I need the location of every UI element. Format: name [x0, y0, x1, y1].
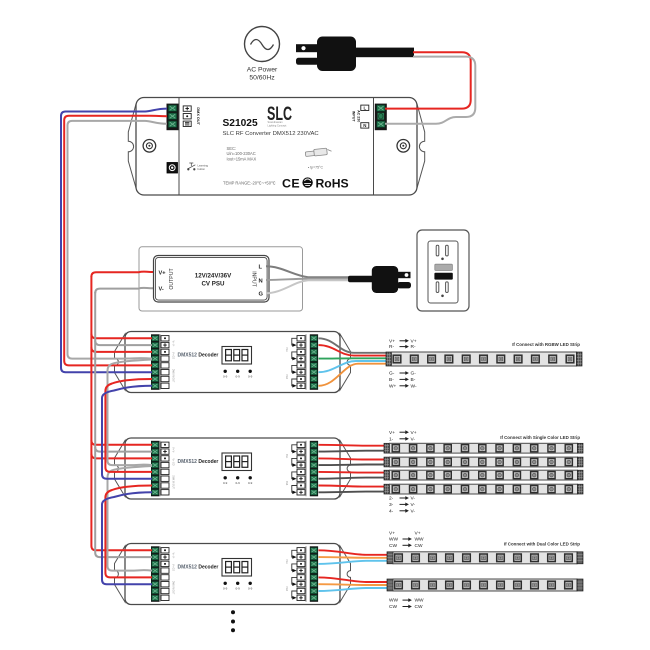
single color LED strip S4	[384, 484, 583, 494]
svg-text:Iout=15mA MAX: Iout=15mA MAX	[227, 156, 257, 161]
svg-text:V+: V+	[389, 530, 395, 536]
continuation ellipsis dots	[231, 610, 235, 614]
converter body	[136, 98, 417, 196]
svg-text:G: G	[259, 291, 264, 297]
L N boxes	[361, 105, 369, 110]
wire V+ red: PSU output to left bus	[91, 272, 153, 277]
svg-text:CW: CW	[415, 543, 423, 549]
wire R- red: decoder1 out to RGBW strip	[319, 345, 388, 356]
wire 3- dark: decoder2 ch3- to strip S3	[319, 478, 385, 479]
svg-text:B-: B-	[411, 377, 416, 383]
svg-text:CW: CW	[389, 543, 397, 549]
wire L: PSU input to plug P2	[266, 266, 350, 277]
wire G: PSU input to plug P2	[266, 280, 350, 293]
svg-text:WW: WW	[389, 598, 399, 604]
svg-text:3-: 3-	[389, 502, 394, 508]
wire V- gray branch to decoder1 row2	[95, 341, 152, 346]
wire DMX+ red link: decoder2 to decoder3	[105, 486, 152, 578]
wire DMX+ red link: decoder1 to decoder2	[105, 379, 152, 472]
svg-text:WW: WW	[415, 537, 425, 543]
svg-text:G-: G-	[389, 371, 395, 377]
svg-text:1-: 1-	[389, 436, 394, 442]
svg-text:S21025: S21025	[223, 118, 258, 129]
svg-text:WW: WW	[389, 537, 399, 543]
svg-text:AC Power: AC Power	[247, 67, 278, 74]
wire DMX- blue bus: converter DMX OUT to decoder 1	[61, 109, 167, 373]
wire 2- dark: decoder2 ch2- to strip S2	[319, 464, 385, 467]
wire L red: plug P1 to converter input	[385, 52, 471, 108]
svg-text:If Connect with RGBW LED Strip: If Connect with RGBW LED Strip	[512, 342, 580, 347]
single strip terminal labels bottom	[389, 496, 415, 515]
svg-text:50/60Hz: 50/60Hz	[249, 75, 275, 82]
svg-text:CE: CE	[282, 177, 300, 191]
DMX OUT polarity boxes	[183, 106, 191, 111]
single color LED strip S3	[384, 470, 583, 480]
wire 4- dark: decoder2 ch4- to strip S4	[319, 491, 385, 494]
screw hole left	[143, 140, 156, 153]
svg-text:L: L	[363, 106, 366, 111]
dual strip terminal labels bottom	[389, 598, 424, 610]
wire 1- dark: decoder2 ch1- to strip S1	[319, 450, 385, 453]
wire DMX- blue link: decoder1 to decoder2	[102, 386, 152, 479]
svg-text:button: button	[198, 167, 206, 171]
svg-text:4-: 4-	[389, 508, 394, 514]
wire gnd gray link: decoder1 to decoder2 row4	[108, 360, 153, 466]
svg-text:CW: CW	[415, 604, 423, 610]
svg-text:V-: V-	[411, 436, 416, 442]
svg-text:OUTPUT: OUTPUT	[169, 268, 175, 290]
svg-text:G-: G-	[411, 371, 417, 377]
svg-text:L: L	[259, 265, 263, 271]
right mounting tab	[417, 104, 425, 188]
single color LED strip S2	[384, 457, 583, 467]
svg-text:If Connect with Single Color L: If Connect with Single Color LED Strip	[500, 435, 580, 440]
PSU box 12V/24V/36V	[154, 256, 270, 303]
RGBW strip terminal labels bottom	[389, 371, 417, 390]
svg-text:INPUT: INPUT	[352, 111, 356, 123]
wire V+ red: decoder2 ch2 to strip S2	[319, 458, 385, 459]
dual strip terminal labels top	[389, 530, 424, 549]
svg-text:W+: W+	[389, 383, 397, 389]
dual color LED strip D1	[387, 552, 583, 564]
wire CW cyan: decoder3 to dual strip D2	[319, 588, 388, 591]
wire DMX- blue link: decoder2 to decoder3	[102, 492, 152, 584]
wall outlet with dimmer	[417, 230, 469, 311]
svg-text:V+: V+	[159, 270, 167, 276]
svg-text:V-: V-	[411, 508, 416, 514]
single strip terminal labels top	[389, 430, 417, 443]
svg-text:V-: V-	[411, 496, 416, 502]
svg-text:INPUT: INPUT	[251, 271, 257, 287]
svg-text:V-: V-	[159, 287, 164, 293]
power plug P1 (to converter)	[296, 37, 414, 72]
DMX512 decoder D1	[115, 332, 351, 393]
single color LED strip S1	[384, 443, 583, 453]
RoHS circle icon	[302, 177, 312, 187]
AC Power 50/60Hz label	[247, 67, 278, 82]
AC power source symbol	[245, 27, 280, 62]
svg-text:AC 230: AC 230	[357, 110, 361, 122]
RGBW LED strip	[386, 352, 582, 366]
power plug P2 (to wall outlet)	[348, 266, 411, 293]
RGBW strip terminal labels top	[389, 338, 417, 350]
svg-text:TEMP RANGE:-20℃~+50℃: TEMP RANGE:-20℃~+50℃	[223, 181, 276, 186]
wire V+ red bus: PSU to decoders 1,2,3	[91, 276, 152, 550]
svg-text:12V/24V/36V: 12V/24V/36V	[195, 273, 232, 280]
wire B- cyan: decoder1 out to RGBW strip	[319, 361, 388, 372]
wire V+ red: decoder2 ch1 to strip S1	[319, 444, 385, 447]
wire CW cyan: decoder3 to dual strip D1	[319, 561, 388, 564]
wire DMX+ red bus: converter DMX OUT to decoder 1	[64, 116, 167, 366]
wire V- gray bus: PSU to decoders 1,2,3	[95, 292, 152, 557]
wire G- green: decoder1 out to RGBW strip	[319, 357, 388, 359]
svg-text:WW: WW	[415, 598, 425, 604]
wire V+ red branch to decoder2 row1	[91, 440, 152, 445]
svg-text:CV PSU: CV PSU	[201, 281, 225, 288]
svg-text:DMX OUT: DMX OUT	[196, 107, 200, 125]
svg-text:Lighting Concept: Lighting Concept	[268, 124, 287, 127]
DMX512 decoder D2	[115, 438, 351, 499]
wire V+ red: decoder3 to dual strip D1	[319, 550, 388, 555]
RF antenna icon	[305, 148, 331, 156]
wire WW orange: decoder3 to dual strip D2	[319, 583, 388, 586]
wire V+ red branch to decoder1 row3	[91, 347, 152, 352]
svg-text:2-: 2-	[389, 496, 394, 502]
svg-text:B-: B-	[389, 377, 394, 383]
wire V+ gray: decoder1 out to RGBW strip	[319, 338, 388, 353]
wire V+ red: decoder2 ch3 to strip S3	[319, 471, 385, 474]
left mounting tab	[128, 104, 136, 188]
RF converter U1 S21025	[128, 98, 424, 196]
svg-text:V+: V+	[389, 430, 395, 436]
wire gnd gray link: decoder2 to decoder3 row4	[108, 466, 153, 571]
svg-text:N: N	[259, 278, 263, 284]
svg-text:CW: CW	[389, 604, 397, 610]
svg-text:V-: V-	[411, 502, 416, 508]
INPUT AC230 terminal block	[375, 104, 387, 131]
svg-text:V+: V+	[389, 338, 395, 344]
wire N: PSU input to plug P2	[266, 279, 350, 280]
wire DMX gnd gray bus: converter DMX OUT to decoder 1	[68, 121, 168, 359]
wire V- gray branch to decoder2 row2	[95, 447, 152, 452]
DMX OUT terminal block	[167, 104, 179, 131]
wire V+ red: decoder3 to dual strip D2	[319, 577, 388, 582]
PSU enclosure outline	[139, 247, 303, 311]
wire V+ red: decoder2 ch4 to strip S4	[319, 486, 385, 487]
learning button switch symbol	[188, 163, 196, 170]
svg-text:R-: R-	[411, 344, 416, 350]
screw hole right	[397, 140, 410, 153]
svg-text:N: N	[363, 123, 366, 128]
svg-text:• tp=75°C: • tp=75°C	[308, 166, 323, 170]
svg-text:V+: V+	[411, 338, 417, 344]
svg-text:If Connect with Dual Color LED: If Connect with Dual Color LED Strip	[504, 541, 580, 546]
svg-text:RoHS: RoHS	[316, 177, 349, 191]
svg-text:R-: R-	[389, 344, 394, 350]
svg-text:SLC RF Converter DMX512 230VAC: SLC RF Converter DMX512 230VAC	[223, 131, 320, 137]
wire W- orange: decoder1 out to RGBW strip	[319, 364, 388, 386]
wire V+ red branch to decoder1 row1	[91, 334, 152, 339]
DMX512 decoder D3	[115, 544, 351, 605]
wire V- gray: PSU output to left bus	[95, 288, 153, 293]
Learning button	[167, 163, 178, 174]
svg-text:W-: W-	[411, 383, 417, 389]
wire N gray: plug P1 to converter input	[385, 57, 475, 124]
wire V+ red branch to decoder2 row3	[91, 454, 152, 459]
dual color LED strip D2	[387, 579, 583, 591]
svg-text:V+: V+	[411, 430, 417, 436]
svg-text:V+: V+	[415, 530, 421, 536]
wire WW orange: decoder3 to dual strip D1	[319, 556, 388, 559]
